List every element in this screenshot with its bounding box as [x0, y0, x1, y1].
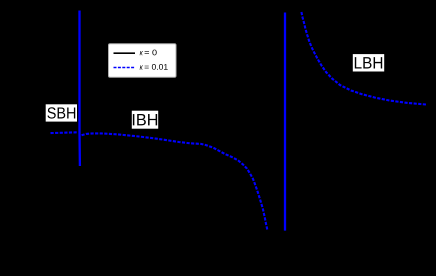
curve kappa=0.01 IBH branch — [82, 133, 268, 230]
label box LBH — [353, 54, 384, 71]
curve kappa=0.01 SBH branch left dashed segment — [51, 131, 79, 134]
legend solid line kappa=0 — [114, 52, 136, 54]
legend label kappa = 0 — [140, 51, 143, 55]
label box IBH — [132, 111, 158, 129]
curve kappa=0.01 LBH branch — [301, 12, 427, 105]
legend label kappa = 0.01 — [140, 65, 143, 69]
label box SBH — [46, 104, 77, 121]
legend dashed line kappa=0.01 — [114, 67, 136, 69]
curve kappa=0.01 LBH divergence vertical line — [284, 13, 286, 231]
legend box — [109, 44, 177, 77]
curve kappa=0.01 SBH divergence vertical line — [78, 11, 81, 167]
